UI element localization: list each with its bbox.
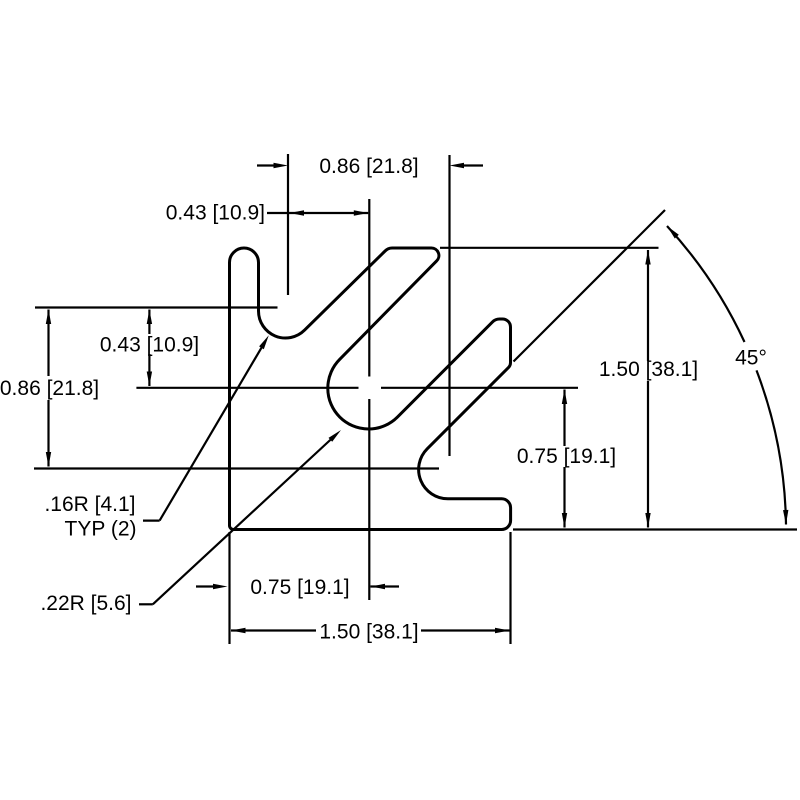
extension line x=510.5 bottom <box>509 532 511 644</box>
extension/center line y=387.8 <box>136 387 358 389</box>
extension line y=247.8 right <box>440 247 659 249</box>
part outline (1.50 x 1.50 serrated profile) <box>230 248 511 530</box>
dim 0.75 bottom <box>196 585 214 587</box>
svg-text:0.75 [19.1]: 0.75 [19.1] <box>517 445 616 468</box>
extension line x=449.5 <box>448 155 450 456</box>
dim 0.86 top <box>257 164 274 166</box>
extension/center line x=369.3 <box>368 199 370 377</box>
dim 1.50 bottom <box>231 629 316 631</box>
leader .16R TYP(2) <box>143 519 160 521</box>
svg-text:45°: 45° <box>735 346 767 369</box>
leader .22R <box>139 603 153 605</box>
extension line y=529.5 right <box>513 528 797 530</box>
svg-text:0.43 [10.9]: 0.43 [10.9] <box>100 334 199 357</box>
45 deg angle arc <box>667 226 745 342</box>
dim 1.50 right <box>647 250 649 361</box>
svg-text:1.50 [38.1]: 1.50 [38.1] <box>599 358 698 381</box>
svg-text:.16R [4.1]: .16R [4.1] <box>44 493 135 516</box>
45 deg reference line <box>514 210 666 362</box>
svg-text:1.50 [38.1]: 1.50 [38.1] <box>319 620 418 643</box>
svg-text:0.43 [10.9]: 0.43 [10.9] <box>166 202 265 225</box>
dim 0.75 right <box>563 390 565 447</box>
extension line x=229.5 bottom <box>228 532 230 644</box>
svg-text:.22R [5.6]: .22R [5.6] <box>40 592 131 615</box>
dim 0.86 left <box>47 310 49 377</box>
svg-text:TYP (2): TYP (2) <box>65 518 137 541</box>
svg-text:0.86 [21.8]: 0.86 [21.8] <box>319 155 418 178</box>
dim 0.43 top <box>267 212 368 214</box>
svg-text:0.86 [21.8]: 0.86 [21.8] <box>0 377 99 400</box>
extension line y=307.5 <box>35 306 278 308</box>
extension line x=288 <box>287 154 289 295</box>
extension line y=468.5 <box>34 467 439 469</box>
dim 0.43 left <box>148 310 150 335</box>
svg-text:0.75 [19.1]: 0.75 [19.1] <box>250 576 349 599</box>
